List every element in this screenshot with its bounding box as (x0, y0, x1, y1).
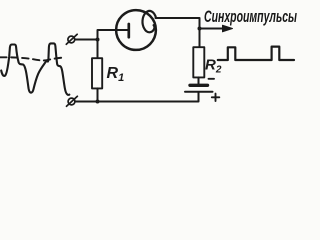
junction dot C (198, 27, 202, 31)
wire: R2 to battery (198, 77, 200, 85)
wire: R1 bottom to ground bus (97, 88, 99, 101)
battery positive plate (long thin) (185, 91, 213, 93)
anode plate bar (127, 24, 130, 37)
resistor R1 (92, 58, 102, 88)
resistor R2 (193, 47, 204, 77)
dashed clipping level line (0, 57, 65, 60)
wire: left vertical with corner to anode (98, 30, 129, 59)
junction dot A (96, 38, 100, 42)
filament cathode loop (142, 11, 156, 32)
wire: top terminal to vertical (75, 39, 98, 41)
minus sign (209, 78, 215, 80)
wire: bottom bus (75, 92, 199, 102)
junction dot B (96, 100, 100, 104)
svg-text:Синхроимпульсы: Синхроимпульсы (204, 8, 297, 26)
tube envelope V1 (116, 10, 156, 50)
input terminal bottom (68, 98, 75, 105)
input terminal top (68, 36, 75, 43)
output sync pulse waveform (218, 47, 294, 60)
battery negative plate (short thick) (190, 84, 208, 87)
input video waveform with sync pulses (1, 43, 69, 94)
plus sign (212, 94, 220, 101)
output arrow (200, 28, 225, 30)
wire: cathode to output corner (156, 18, 200, 47)
